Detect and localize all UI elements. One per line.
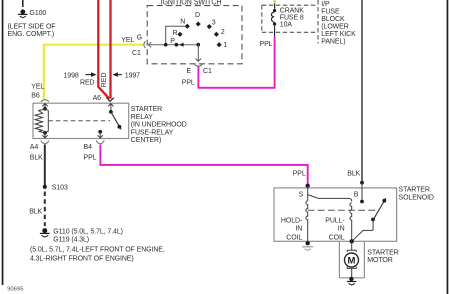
label starter motor <box>367 250 398 265</box>
node contact D <box>196 21 201 26</box>
arrow 1998 pointer <box>86 72 97 77</box>
wire from wiper junction to N contact <box>166 26 188 45</box>
node relay blade pivot <box>109 110 113 114</box>
ground below motor <box>347 282 356 286</box>
svg-text:PULL-: PULL- <box>325 217 345 224</box>
wire stub above fuse <box>273 0 276 3</box>
label G100 location note <box>8 24 56 38</box>
node contact N <box>185 24 190 29</box>
svg-text:HOLD-: HOLD- <box>281 217 303 224</box>
wire blade to motor junction <box>352 220 373 242</box>
node relay coil top <box>43 107 47 111</box>
svg-text:BLK: BLK <box>29 208 42 215</box>
svg-text:(LEFT SIDE OF: (LEFT SIDE OF <box>8 24 56 31</box>
wire RED 1997 battery feed <box>109 0 111 99</box>
switch wiper common line with pin G arrow <box>148 42 198 47</box>
svg-text:D: D <box>195 12 200 19</box>
pin B6 arrow inside relay <box>42 104 47 109</box>
svg-text:(LOWER: (LOWER <box>321 23 348 30</box>
svg-text:C1: C1 <box>203 68 212 75</box>
svg-text:PPL: PPL <box>182 80 195 87</box>
wire dashed lead to ground G100 <box>22 0 24 8</box>
svg-text:G110 (5.0L, 5.7L, 7.4L): G110 (5.0L, 5.7L, 7.4L) <box>53 228 123 235</box>
svg-text:1997: 1997 <box>125 72 140 79</box>
node contact P <box>175 43 179 47</box>
svg-text:BLOCK: BLOCK <box>321 16 345 23</box>
wire PPL from E to crank fuse <box>198 37 274 88</box>
node blade lower contact <box>371 218 375 222</box>
node contact 1 <box>217 42 222 47</box>
wire branch S to pull-in coil <box>308 195 352 202</box>
label pull-in coil <box>325 217 345 241</box>
label I/P fuse block <box>321 1 356 46</box>
node hold-in coil ground <box>306 241 310 245</box>
fuse block dashed box <box>262 0 318 43</box>
svg-text:4.3L-RIGHT FRONT OF ENGINE): 4.3L-RIGHT FRONT OF ENGINE) <box>30 255 134 262</box>
wire YEL from ignition switch G to relay B6 <box>44 45 145 99</box>
svg-text:YEL: YEL <box>121 37 134 44</box>
svg-text:PPL: PPL <box>260 41 273 48</box>
node contact 3 <box>207 24 212 29</box>
svg-text:IN: IN <box>338 226 345 233</box>
node splice S103 <box>43 185 47 189</box>
node wiper junction <box>164 43 168 47</box>
svg-text:IN: IN <box>295 226 302 233</box>
svg-text:YEL: YEL <box>31 83 44 90</box>
ground below hold-in coil (faded) <box>302 247 313 251</box>
wire BLK battery feed to solenoid B <box>361 0 363 183</box>
svg-text:STARTER: STARTER <box>399 186 430 193</box>
svg-text:3: 3 <box>212 19 216 26</box>
svg-text:A6: A6 <box>93 95 102 102</box>
label hold-in coil <box>281 217 303 241</box>
wire BLK from A4 to S103 <box>44 145 46 187</box>
svg-text:P: P <box>170 38 175 45</box>
svg-text:CRANK: CRANK <box>280 8 304 15</box>
label ground location note <box>30 246 165 262</box>
svg-text:FUSE-RELAY: FUSE-RELAY <box>131 129 174 136</box>
node blade upper contact <box>382 199 386 203</box>
solenoid switch blade <box>373 198 386 220</box>
svg-text:E: E <box>187 68 192 75</box>
wire B terminal into solenoid <box>361 183 363 202</box>
svg-text:RED: RED <box>80 80 95 87</box>
svg-text:COIL: COIL <box>329 234 345 241</box>
node B terminal <box>360 181 364 185</box>
wire junction to motor armature <box>351 241 353 250</box>
svg-text:RELAY: RELAY <box>131 114 153 121</box>
connector pin B4 <box>96 141 104 144</box>
svg-text:MOTOR: MOTOR <box>367 257 392 264</box>
node junction to E <box>197 43 201 47</box>
motor brush bottom <box>347 267 356 269</box>
svg-text:STARTER: STARTER <box>367 250 398 257</box>
wiper arrowhead <box>179 43 183 47</box>
node motor ground <box>349 277 353 281</box>
node relay blade end <box>118 125 122 129</box>
wire PPL from relay B4 to solenoid S <box>100 145 307 185</box>
svg-text:(5.0L, 5.7L, 7.4L-LEFT FRONT O: (5.0L, 5.7L, 7.4L-LEFT FRONT OF ENGINE, <box>30 246 165 253</box>
node contact R <box>177 32 182 37</box>
motor M armature circle <box>345 253 359 267</box>
label crank fuse <box>280 8 304 29</box>
ground G110/G119 <box>40 229 50 238</box>
svg-text:10A: 10A <box>280 22 293 29</box>
starter motor M1 housing <box>339 241 364 277</box>
solenoid actuation dashed link <box>308 209 378 211</box>
svg-text:I/P: I/P <box>321 1 330 8</box>
relay actuation dashed link <box>48 120 110 122</box>
svg-text:S103: S103 <box>52 185 68 192</box>
svg-text:B4: B4 <box>84 144 93 151</box>
connector pin B6 <box>41 100 49 102</box>
node contact 2 <box>214 32 219 37</box>
frame border right <box>447 0 449 294</box>
svg-text:SOLENOID: SOLENOID <box>399 195 434 202</box>
starter solenoid box <box>274 188 397 241</box>
node relay B4 contact <box>98 130 102 134</box>
svg-text:S: S <box>299 191 304 198</box>
wire RED 1998 battery feed <box>98 0 109 99</box>
arrow 1997 pointer <box>113 72 122 77</box>
svg-text:PPL: PPL <box>293 171 306 178</box>
svg-text:RED: RED <box>101 73 108 88</box>
connector pin E arc <box>194 64 202 66</box>
motor brush top <box>347 250 356 252</box>
svg-text:FUSE 8: FUSE 8 <box>280 15 304 22</box>
svg-text:R: R <box>173 30 178 37</box>
pin B4 arrow inside relay <box>98 132 103 138</box>
node pull-in coil / motor junction <box>350 239 354 243</box>
svg-text:PANEL): PANEL) <box>321 38 345 45</box>
ground G100 <box>18 10 28 18</box>
frame border left <box>2 0 4 285</box>
svg-text:B6: B6 <box>31 93 40 100</box>
fuse F8 CRANK 10A <box>271 3 276 36</box>
svg-text:G100: G100 <box>30 10 47 17</box>
svg-text:B: B <box>354 191 359 198</box>
hold-in coil L1 <box>306 201 308 243</box>
wire dashed BLK from S103 to G110 <box>44 192 46 227</box>
connector pin A4 <box>41 141 49 144</box>
node B contact <box>360 200 364 204</box>
svg-text:M: M <box>348 255 356 266</box>
starter relay K1 box <box>33 103 129 138</box>
wire S terminal into solenoid <box>307 186 309 201</box>
wire from wiper junction down to pin E with arrow <box>196 45 201 62</box>
relay switch blade <box>111 112 121 130</box>
pull-in coil L2 <box>350 203 352 242</box>
svg-text:COIL: COIL <box>286 234 302 241</box>
node relay coil bottom <box>43 131 47 135</box>
pin A4 arrow inside relay <box>42 133 47 138</box>
svg-text:STARTER: STARTER <box>131 106 162 113</box>
svg-text:CENTER): CENTER) <box>131 137 161 144</box>
svg-text:ENG. COMPT.): ENG. COMPT.) <box>8 31 55 38</box>
label starter relay <box>131 106 187 144</box>
svg-text:90695: 90695 <box>7 286 23 292</box>
svg-text:G119 (4.3L): G119 (4.3L) <box>53 236 89 243</box>
ignition switch box <box>147 6 242 64</box>
label starter solenoid <box>399 186 434 201</box>
arrow wire end at A6 <box>106 97 113 101</box>
svg-text:LEFT KICK: LEFT KICK <box>321 31 356 38</box>
svg-text:G: G <box>137 35 142 42</box>
wire armature to motor ground <box>351 268 353 277</box>
svg-text:PPL: PPL <box>84 155 97 162</box>
svg-text:N: N <box>180 18 185 25</box>
svg-text:C1: C1 <box>132 50 141 57</box>
svg-text:BLK: BLK <box>30 155 43 162</box>
svg-text:BLK: BLK <box>347 171 360 178</box>
pin A6 arrow inside relay <box>108 104 113 112</box>
node S terminal <box>306 184 310 188</box>
connector pin G <box>144 41 145 48</box>
svg-text:IGNITION SWITCH: IGNITION SWITCH <box>161 0 222 6</box>
svg-text:1998: 1998 <box>64 72 79 79</box>
relay coil <box>35 109 48 133</box>
svg-text:2: 2 <box>221 29 225 36</box>
svg-text:A4: A4 <box>30 144 39 151</box>
svg-text:FUSE: FUSE <box>321 8 340 15</box>
svg-text:(IN UNDERHOOD: (IN UNDERHOOD <box>131 122 187 129</box>
svg-text:1: 1 <box>223 42 227 49</box>
